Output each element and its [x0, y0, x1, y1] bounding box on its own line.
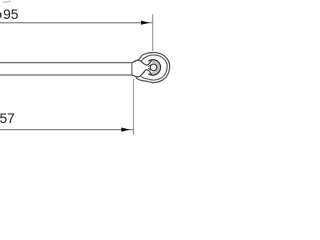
slot inner lower edge [148, 68, 152, 70]
C clip inner hole [150, 64, 157, 71]
rod bottom edge [0, 74, 132, 76]
arrowhead 95 [141, 21, 150, 25]
dimension line 95 [0, 22, 153, 24]
faint cropped mark top-left [3, 1, 11, 2]
slot inner upper edge [148, 65, 152, 67]
svg-text:95: 95 [3, 7, 19, 22]
hook head outer contour [135, 53, 169, 83]
arrowhead 57 [121, 128, 130, 132]
extension line top (hook axis) [152, 14, 154, 51]
bulb top edge / slot upper lip [132, 60, 152, 65]
C clip outer arc [148, 60, 160, 75]
dimension line 57 [0, 129, 134, 131]
hook head inner ring contour [141, 55, 167, 80]
extension line bottom [133, 79, 135, 135]
rod top edge [0, 62, 132, 64]
rod end edge [131, 63, 133, 75]
bulb bottom edge / slot lower lip [132, 70, 152, 77]
partial digit cut at left edge [0, 13, 1, 18]
svg-text:57: 57 [0, 111, 15, 126]
rod end bulb cover (white body) [132, 60, 153, 77]
C clip band shading [152, 62, 159, 73]
